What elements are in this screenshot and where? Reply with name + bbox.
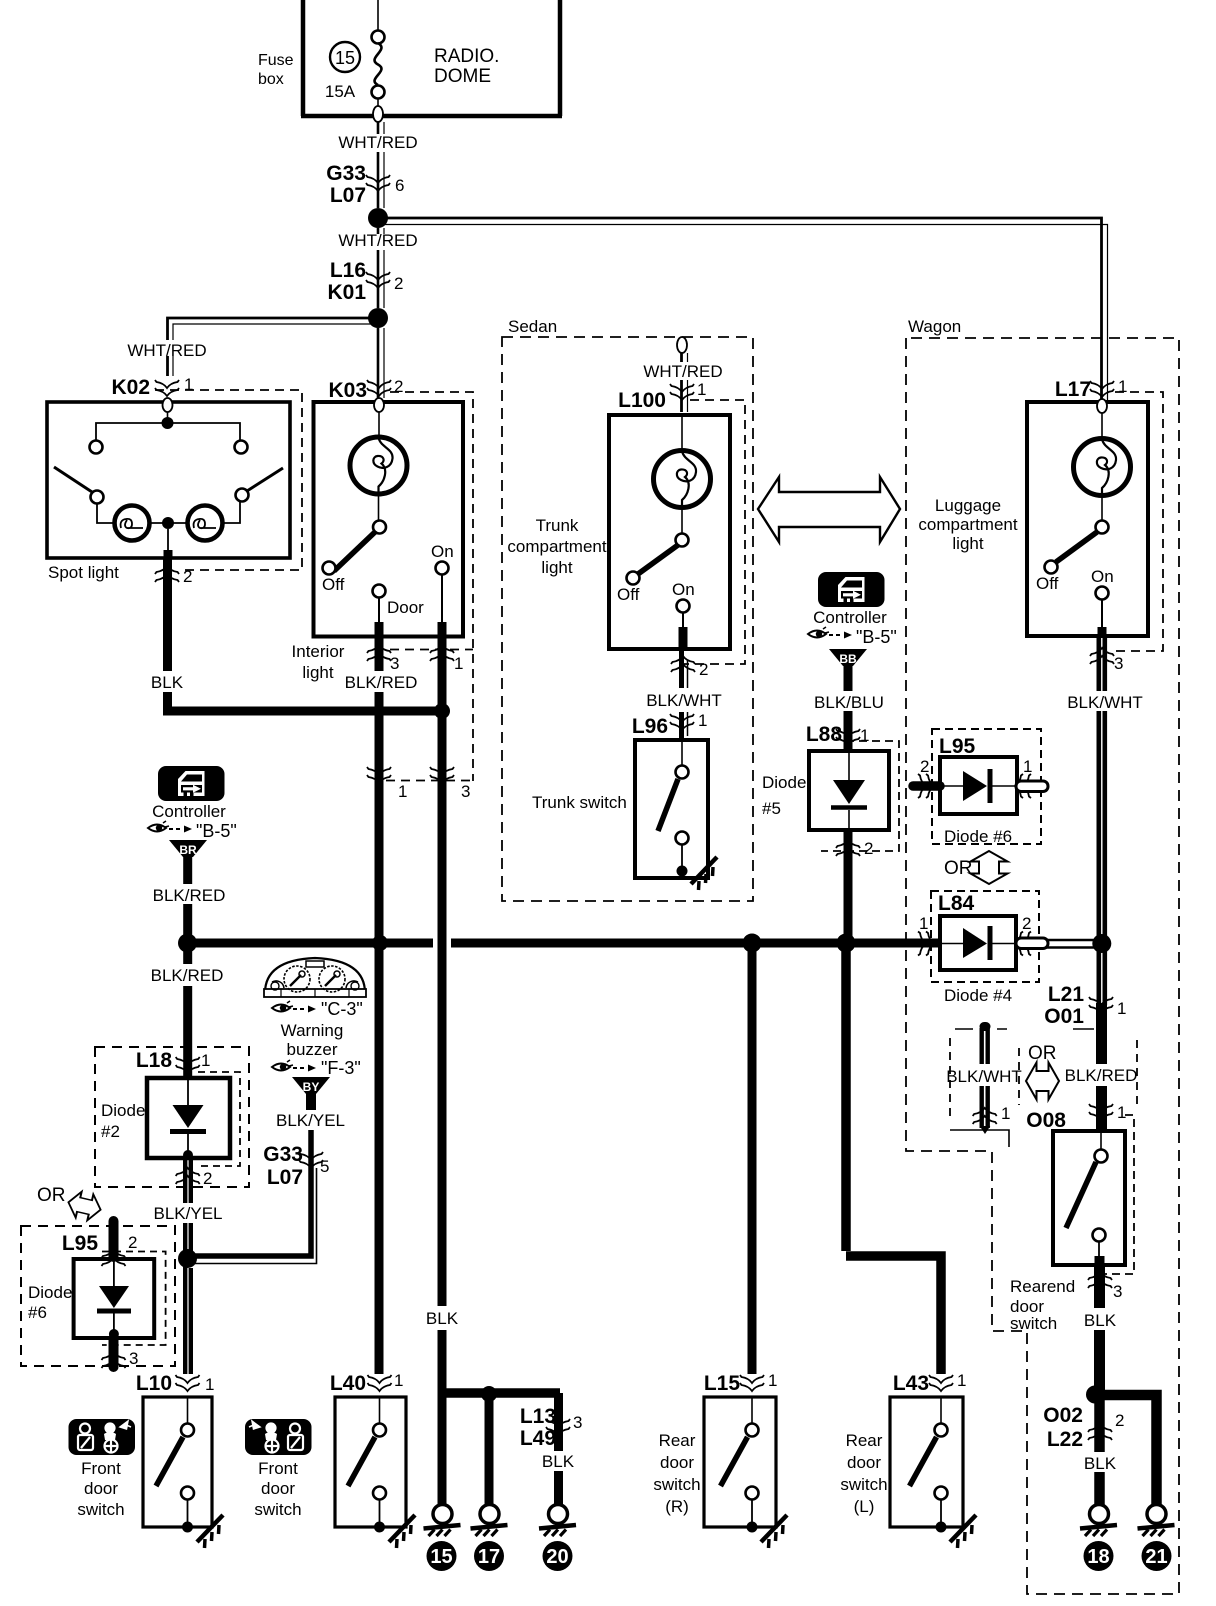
svg-text:#6: #6	[28, 1303, 47, 1322]
wire bus to L15	[748, 947, 757, 1374]
wire BLK/BLU to L88	[814, 660, 884, 751]
connector loop at fuse box exit	[373, 106, 383, 122]
svg-text:1: 1	[394, 1371, 403, 1390]
svg-text:3: 3	[1113, 1282, 1122, 1301]
eye reference F-3	[272, 1058, 361, 1078]
connector O08 pin 3	[1088, 1272, 1122, 1301]
svg-text:L84: L84	[938, 892, 975, 915]
Sedan dashed box	[502, 337, 753, 901]
OR alternate bracket lines	[950, 1029, 1137, 1147]
trunk switch L96 box	[635, 740, 708, 878]
diode #5 L88 box	[809, 751, 889, 830]
svg-text:L15: L15	[704, 1372, 741, 1395]
wire BLK/YEL from L18 to junction	[154, 1158, 223, 1254]
svg-text:BLK/WHT: BLK/WHT	[1067, 693, 1143, 712]
node: bus and L15 wire	[743, 934, 762, 953]
connector L43 pin 1	[893, 1371, 967, 1395]
svg-text:2: 2	[699, 660, 708, 679]
connector L15 pin 1	[704, 1371, 778, 1395]
svg-text:BLK/BLU: BLK/BLU	[814, 693, 884, 712]
svg-text:BY: BY	[303, 1080, 320, 1094]
ground 21	[1138, 1505, 1175, 1572]
svg-text:"B-5": "B-5"	[196, 821, 237, 841]
svg-text:OR: OR	[944, 858, 973, 879]
svg-text:OR: OR	[37, 1185, 66, 1206]
svg-text:L43: L43	[893, 1372, 929, 1395]
svg-text:BLK: BLK	[151, 673, 184, 692]
connector K03 pin 1	[430, 645, 463, 673]
node: BLK joins K03 pin1 wire	[434, 703, 450, 719]
L17 bulb	[1074, 439, 1131, 496]
wire WHT/RED junction left to K02	[127, 318, 378, 376]
svg-text:#5: #5	[762, 799, 781, 818]
svg-text:BLK/YEL: BLK/YEL	[154, 1204, 223, 1223]
svg-text:O02: O02	[1043, 1404, 1083, 1427]
wire L84 pin2 to junction	[1046, 940, 1102, 948]
svg-text:2: 2	[128, 1233, 137, 1252]
connector L17 pin 1	[1055, 377, 1128, 401]
dashed bracket around K03	[386, 392, 473, 781]
svg-text:6: 6	[395, 176, 404, 195]
svg-text:O01: O01	[1044, 1005, 1084, 1028]
wire stub to ground 15	[438, 1393, 447, 1505]
svg-text:switch: switch	[77, 1500, 124, 1519]
connector BY (warning buzzer)	[292, 1077, 330, 1094]
svg-text:Trunk: Trunk	[536, 516, 579, 535]
BLK/WHT alternate stub	[946, 1022, 1022, 1134]
svg-text:Rearend: Rearend	[1010, 1277, 1075, 1296]
svg-text:1: 1	[1117, 999, 1126, 1018]
connector L10 pin 1	[136, 1372, 215, 1395]
front door switch icon (right)	[245, 1419, 312, 1455]
svg-text:L22: L22	[1047, 1428, 1083, 1451]
OR marker (O08 feed)	[1026, 1043, 1059, 1100]
wire from K03 pin1 down through bus	[438, 636, 447, 1393]
in-line connector pin 3 on K03 pin1 wire	[430, 767, 470, 801]
L95 pin 2 stub (left)	[62, 1221, 138, 1266]
dashed bracket around L88	[821, 741, 899, 851]
svg-text:Off: Off	[617, 585, 640, 604]
svg-text:2: 2	[183, 567, 192, 586]
svg-text:On: On	[1091, 567, 1114, 586]
connector G33 L07 pin 6	[326, 162, 404, 207]
svg-text:door: door	[660, 1453, 694, 1472]
connector L88 pin 2	[836, 839, 873, 858]
ground 18	[1080, 1505, 1117, 1572]
controller icon (sedan)	[818, 572, 885, 607]
svg-text:Diode #4: Diode #4	[944, 986, 1012, 1005]
connector L40 pin 1	[330, 1371, 404, 1395]
dashed bracket around L100	[684, 400, 745, 664]
svg-text:box: box	[258, 71, 284, 88]
svg-text:L16: L16	[330, 259, 366, 282]
svg-text:door: door	[84, 1479, 118, 1498]
svg-text:WHT/RED: WHT/RED	[127, 341, 206, 360]
wire L13/L49 branch to ground 20	[542, 1393, 575, 1505]
connector K03 pin 3	[367, 645, 399, 673]
svg-text:5: 5	[320, 1157, 329, 1176]
ground 17	[471, 1505, 508, 1572]
svg-text:Sedan: Sedan	[508, 317, 557, 336]
interior light K03 box	[314, 398, 464, 637]
svg-text:BB: BB	[839, 652, 857, 666]
svg-text:"B-5": "B-5"	[856, 627, 897, 647]
svg-text:K01: K01	[327, 281, 366, 304]
svg-text:Wagon: Wagon	[908, 317, 961, 336]
svg-text:compartment: compartment	[507, 537, 606, 556]
inner dashed bracket L95 (left)	[102, 1252, 166, 1346]
svg-text:20: 20	[546, 1546, 568, 1568]
svg-text:L07: L07	[330, 184, 366, 207]
svg-text:15: 15	[335, 48, 355, 68]
K03 bulb	[350, 437, 407, 494]
svg-text:Front: Front	[81, 1459, 121, 1478]
svg-text:O08: O08	[1026, 1109, 1066, 1132]
node: bus and L43 wire	[837, 934, 856, 953]
wire BLK/RED (x379) bus to L40	[375, 947, 384, 1374]
node: wagon junction	[1092, 934, 1111, 953]
wire BLK/RED bus junction to L18	[151, 943, 224, 1078]
svg-text:3: 3	[461, 782, 470, 801]
front door switch icon (left)	[69, 1419, 136, 1455]
svg-text:3: 3	[573, 1413, 582, 1432]
svg-text:3: 3	[129, 1349, 138, 1368]
wire WHT/RED to L100	[643, 353, 722, 412]
svg-text:Front: Front	[258, 1459, 298, 1478]
L84 pin 1 (bus feed)	[918, 914, 934, 956]
arrow between sedan and wagon	[758, 477, 900, 542]
svg-text:2: 2	[864, 839, 873, 858]
svg-text:Diode: Diode	[762, 773, 806, 792]
node: O02 junction	[1086, 1386, 1104, 1404]
wire BLK/WHT L100 to L96	[646, 649, 722, 740]
wire stub to ground 17	[485, 1393, 494, 1505]
warning buzzer icon	[264, 958, 366, 997]
connector L21 O01 pin 1	[1044, 983, 1126, 1028]
diode #4 L84 box	[938, 892, 1016, 970]
svg-text:L96: L96	[632, 715, 668, 738]
inner dashed bracket L18	[198, 1072, 240, 1166]
svg-text:2: 2	[203, 1169, 212, 1188]
wire WHT/RED junction down to K03	[378, 328, 384, 398]
diode #6 L95 box (wagon)	[939, 735, 1017, 814]
svg-text:Warning: Warning	[281, 1021, 344, 1040]
svg-text:L18: L18	[136, 1049, 173, 1072]
svg-text:L10: L10	[136, 1372, 172, 1395]
node: G33/L07 junction	[368, 208, 388, 228]
main bus wire	[187, 939, 940, 948]
node: left bus junction	[178, 934, 197, 953]
wire BLK/RED from K03 pin3 down	[345, 636, 418, 938]
svg-text:Interior: Interior	[292, 642, 345, 661]
svg-text:Diode: Diode	[101, 1101, 145, 1120]
svg-text:Rear: Rear	[846, 1431, 883, 1450]
luggage compartment light L17 box	[1027, 399, 1148, 636]
svg-text:1: 1	[201, 1051, 210, 1070]
node: bus and BLK/RED wire	[372, 935, 388, 951]
ground at L10	[197, 1515, 223, 1548]
node: x442 junction at ground bar	[438, 1388, 560, 1398]
svg-text:1: 1	[698, 711, 707, 730]
svg-text:1: 1	[1118, 377, 1127, 396]
dashed box around L84 diode #4	[931, 891, 1039, 982]
svg-text:Controller: Controller	[813, 608, 887, 627]
svg-text:1: 1	[919, 914, 928, 933]
trunk compartment light L100 box	[609, 415, 730, 649]
svg-text:L17: L17	[1055, 378, 1091, 401]
svg-text:G33: G33	[263, 1143, 303, 1166]
svg-text:light: light	[952, 534, 983, 553]
wire WHT/RED fuse box to G33 junction	[338, 122, 417, 208]
svg-text:buzzer: buzzer	[286, 1040, 337, 1059]
svg-text:1: 1	[697, 380, 706, 399]
eye reference B-5 (sedan)	[808, 627, 897, 647]
svg-text:On: On	[672, 580, 695, 599]
svg-text:"C-3": "C-3"	[321, 999, 363, 1019]
wire WHT/RED junction to L16/K01	[338, 228, 417, 308]
dashed box around L95 diode #6 (wagon)	[932, 729, 1041, 844]
svg-text:Diode #6: Diode #6	[944, 827, 1012, 846]
svg-text:switch: switch	[254, 1500, 301, 1519]
svg-text:L88: L88	[806, 723, 843, 746]
svg-text:L100: L100	[618, 389, 666, 412]
svg-text:Door: Door	[387, 598, 424, 617]
ground 20	[539, 1505, 576, 1572]
L17 switch	[1096, 521, 1109, 534]
svg-text:3: 3	[390, 654, 399, 673]
svg-text:WHT/RED: WHT/RED	[338, 133, 417, 152]
svg-text:1: 1	[957, 1371, 966, 1390]
svg-text:Rear: Rear	[659, 1431, 696, 1450]
dashed bracket around L17	[1110, 392, 1163, 651]
svg-text:Off: Off	[322, 575, 345, 594]
svg-text:BLK/RED: BLK/RED	[151, 966, 224, 985]
Wagon dashed box	[906, 338, 1179, 1594]
ground at L40	[389, 1515, 415, 1548]
svg-text:L21: L21	[1048, 983, 1085, 1006]
diode #2 L18 box	[147, 1078, 230, 1160]
svg-text:Spot light: Spot light	[48, 563, 119, 582]
wire BLK from O08 to O02 junction	[1084, 1265, 1117, 1390]
svg-text:BLK/RED: BLK/RED	[1065, 1066, 1138, 1085]
svg-text:door: door	[261, 1479, 295, 1498]
eye reference C-3	[272, 999, 363, 1019]
connector G33 L07 pin 5	[263, 1143, 329, 1189]
svg-text:switch: switch	[1010, 1314, 1057, 1333]
svg-text:2: 2	[1115, 1411, 1124, 1430]
svg-text:L49: L49	[520, 1427, 556, 1450]
svg-text:18: 18	[1087, 1546, 1109, 1568]
svg-text:L07: L07	[267, 1166, 303, 1189]
svg-text:light: light	[302, 663, 333, 682]
L95 pin 3 stub (left)	[102, 1338, 139, 1368]
svg-text:BLK/WHT: BLK/WHT	[646, 691, 722, 710]
ground at trunk switch	[691, 857, 717, 890]
diode #6 L95 box (left)	[74, 1259, 155, 1339]
svg-text:15A: 15A	[325, 82, 356, 101]
svg-text:BLK: BLK	[1084, 1454, 1117, 1473]
svg-text:2: 2	[1022, 914, 1031, 933]
svg-text:G33: G33	[326, 162, 366, 185]
svg-text:Controller: Controller	[152, 802, 226, 821]
svg-text:Diode: Diode	[28, 1283, 72, 1302]
svg-text:OR: OR	[1028, 1043, 1057, 1064]
svg-text:1: 1	[1001, 1104, 1010, 1123]
connector L100 pin 1	[618, 380, 706, 412]
node: K01 junction	[368, 308, 388, 328]
svg-text:BR: BR	[179, 843, 197, 857]
OR alternative marker (wagon diodes)	[944, 851, 1008, 884]
wire bus to L43	[846, 947, 941, 1374]
rearend door switch O08 box	[1053, 1131, 1125, 1265]
svg-text:1: 1	[1023, 757, 1032, 776]
svg-text:BLK: BLK	[1084, 1311, 1117, 1330]
svg-text:Off: Off	[1036, 574, 1059, 593]
svg-text:1: 1	[205, 1375, 214, 1394]
wire BLK/RED junction to O08	[1065, 950, 1138, 1131]
svg-text:door: door	[847, 1453, 881, 1472]
ground 15	[424, 1505, 461, 1572]
svg-text:DOME: DOME	[434, 66, 491, 87]
svg-text:1: 1	[398, 782, 407, 801]
connector O08 pin 1	[1026, 1103, 1126, 1132]
svg-text:BLK/YEL: BLK/YEL	[276, 1111, 345, 1130]
svg-text:switch: switch	[840, 1475, 887, 1494]
connector K02 pin 1	[111, 375, 193, 399]
K03 switch	[373, 521, 386, 534]
connector L96 pin 1	[632, 711, 708, 738]
connector BB (controller)	[829, 649, 867, 666]
svg-text:L40: L40	[330, 1372, 366, 1395]
wire from L88 pin 2 to bus	[844, 830, 853, 943]
node: BLK/YEL junction	[178, 1249, 197, 1268]
svg-text:Trunk switch: Trunk switch	[532, 793, 627, 812]
connector K02 pin 2	[155, 566, 192, 586]
fuse F15 15A	[325, 0, 385, 106]
wire BLK from spot light down and right to K03 pin1 wire	[151, 558, 442, 711]
svg-text:L13: L13	[520, 1405, 556, 1428]
connector loop at sedan box entry	[677, 337, 687, 353]
wire BLK (x442) label	[426, 1306, 459, 1330]
connector L17 pin 3	[1090, 648, 1123, 673]
connector L13 L49 pin 3	[520, 1405, 583, 1450]
svg-text:1: 1	[184, 375, 193, 394]
spot light K02 box	[47, 398, 290, 558]
eye reference B-5 (left)	[148, 821, 237, 841]
L100 switch	[676, 534, 689, 547]
connector BR (controller)	[169, 840, 207, 857]
svg-text:On: On	[431, 542, 454, 561]
outer dashed box around L18	[95, 1047, 249, 1187]
connector L18 pin 2	[176, 1168, 213, 1188]
svg-text:1: 1	[860, 726, 869, 745]
svg-text:(L): (L)	[854, 1497, 875, 1516]
svg-text:switch: switch	[653, 1475, 700, 1494]
svg-text:2: 2	[394, 377, 403, 396]
wire WHT/RED junction to right side (to L17)	[378, 218, 1108, 401]
connector L100 pin 2	[671, 656, 708, 679]
dashed box around L95 diode #6 (left)	[21, 1226, 175, 1366]
wire BLK/YEL from BY down	[276, 1088, 345, 1162]
wire BLK/RED from BR to bus junction	[153, 851, 226, 938]
svg-text:light: light	[541, 558, 572, 577]
in-line connector pin 1 on BLK/RED wire	[367, 767, 407, 801]
svg-text:1: 1	[454, 654, 463, 673]
connector L18 pin 1	[136, 1049, 211, 1073]
svg-text:1: 1	[1117, 1103, 1126, 1122]
svg-text:Fuse: Fuse	[258, 52, 294, 69]
L95 pin 2 stub (wagon)	[913, 757, 940, 798]
ground at L43	[950, 1515, 976, 1548]
svg-text:compartment: compartment	[918, 515, 1017, 534]
svg-text:2: 2	[920, 757, 929, 776]
spot light bulb left	[115, 506, 150, 541]
svg-text:RADIO.: RADIO.	[434, 46, 499, 67]
dashed bracket around K02	[155, 390, 302, 570]
rear door switch L L43 box	[890, 1397, 963, 1533]
svg-text:17: 17	[478, 1546, 500, 1568]
OR marker (left diode alternative)	[37, 1185, 104, 1223]
svg-text:Luggage: Luggage	[935, 496, 1001, 515]
svg-text:BLK: BLK	[426, 1309, 459, 1328]
front door switch L10 box	[143, 1397, 212, 1533]
wire branch to ground 21	[1098, 1395, 1157, 1505]
svg-text:#2: #2	[101, 1122, 120, 1141]
svg-text:2: 2	[394, 274, 403, 293]
svg-text:L95: L95	[939, 735, 976, 758]
svg-text:WHT/RED: WHT/RED	[643, 362, 722, 381]
dashed bracket around O08	[1100, 1115, 1134, 1274]
svg-text:3: 3	[1114, 654, 1123, 673]
svg-text:BLK/RED: BLK/RED	[153, 886, 226, 905]
controller icon (left)	[158, 766, 225, 801]
rear door switch R L15 box	[704, 1397, 776, 1533]
svg-text:BLK/RED: BLK/RED	[345, 673, 418, 692]
svg-text:WHT/RED: WHT/RED	[338, 231, 417, 250]
svg-text:1: 1	[768, 1371, 777, 1390]
svg-text:K03: K03	[328, 379, 367, 402]
wire BLK to ground 18	[1084, 1394, 1117, 1505]
L95 pin 1 loop (wagon)	[1015, 757, 1048, 798]
connector O02 L22 pin 2	[1043, 1404, 1124, 1451]
svg-text:21: 21	[1145, 1546, 1167, 1568]
connector L88 pin 1	[806, 723, 870, 746]
connector K03 pin 2	[328, 377, 403, 402]
wire twin junction down to L10	[185, 1263, 191, 1374]
svg-text:K02: K02	[111, 376, 150, 399]
L100 bulb	[654, 451, 711, 508]
svg-text:L95: L95	[62, 1232, 99, 1255]
fuse box	[258, 0, 562, 116]
svg-text:BLK/WHT: BLK/WHT	[946, 1067, 1022, 1086]
front door switch L40 box	[335, 1397, 406, 1533]
spot light bulb right	[188, 506, 223, 541]
svg-text:(R): (R)	[665, 1497, 689, 1516]
ground at L15	[761, 1515, 787, 1548]
wire twin junction to buzzer branch	[187, 1162, 317, 1264]
svg-text:BLK: BLK	[542, 1452, 575, 1471]
wire BLK/WHT from L17 to junction	[1067, 636, 1143, 938]
L84 pin 2 loop	[1015, 914, 1048, 956]
connector L16 K01 pin 2	[327, 259, 403, 304]
svg-text:"F-3": "F-3"	[321, 1058, 361, 1078]
svg-text:15: 15	[430, 1546, 452, 1568]
